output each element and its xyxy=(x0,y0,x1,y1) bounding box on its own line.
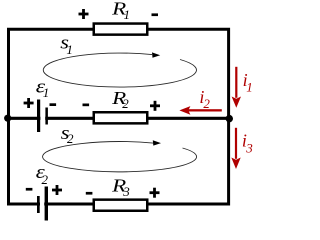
battery E1 plate long xyxy=(37,100,40,133)
resistor R2 xyxy=(94,112,148,123)
battery gap ε1 xyxy=(40,114,45,123)
svg-text:3: 3 xyxy=(122,184,130,199)
current arrow i1 xyxy=(232,67,241,108)
battery E2 plate long xyxy=(45,187,48,221)
loop s1 arrowhead xyxy=(152,52,160,57)
minus E2 xyxy=(26,188,33,191)
svg-text:1: 1 xyxy=(43,85,50,100)
battery gap ε2 xyxy=(40,200,44,209)
svg-text:2: 2 xyxy=(122,96,129,111)
svg-text:1: 1 xyxy=(246,80,253,95)
minus R2 xyxy=(83,104,90,107)
plus R3 xyxy=(150,188,160,198)
node right xyxy=(226,115,233,122)
svg-text:2: 2 xyxy=(42,172,49,187)
plus R1 xyxy=(79,9,89,19)
battery E1 plate short xyxy=(45,108,48,125)
svg-text:2: 2 xyxy=(67,131,74,146)
loop s1 ellipse xyxy=(43,53,196,87)
resistor R3 xyxy=(94,200,148,211)
minus R1 xyxy=(152,13,159,16)
wire middle branch xyxy=(7,117,230,120)
current arrow i2 xyxy=(179,106,221,115)
current arrow i3 xyxy=(231,128,240,169)
minus R3 xyxy=(86,192,93,195)
resistor R1 xyxy=(94,24,148,35)
loop s2 arrowhead xyxy=(153,140,161,145)
svg-text:2: 2 xyxy=(203,96,210,111)
node left xyxy=(4,115,11,122)
plus E1 xyxy=(24,98,34,108)
plus R2 xyxy=(150,101,160,111)
svg-text:1: 1 xyxy=(66,42,73,57)
svg-text:3: 3 xyxy=(245,141,253,156)
loop s2 ellipse xyxy=(43,142,197,172)
battery E2 plate short xyxy=(37,196,40,213)
minus E1 xyxy=(50,103,57,106)
svg-text:1: 1 xyxy=(124,7,131,22)
plus E2 xyxy=(52,185,62,195)
wire outer loop xyxy=(9,29,229,204)
